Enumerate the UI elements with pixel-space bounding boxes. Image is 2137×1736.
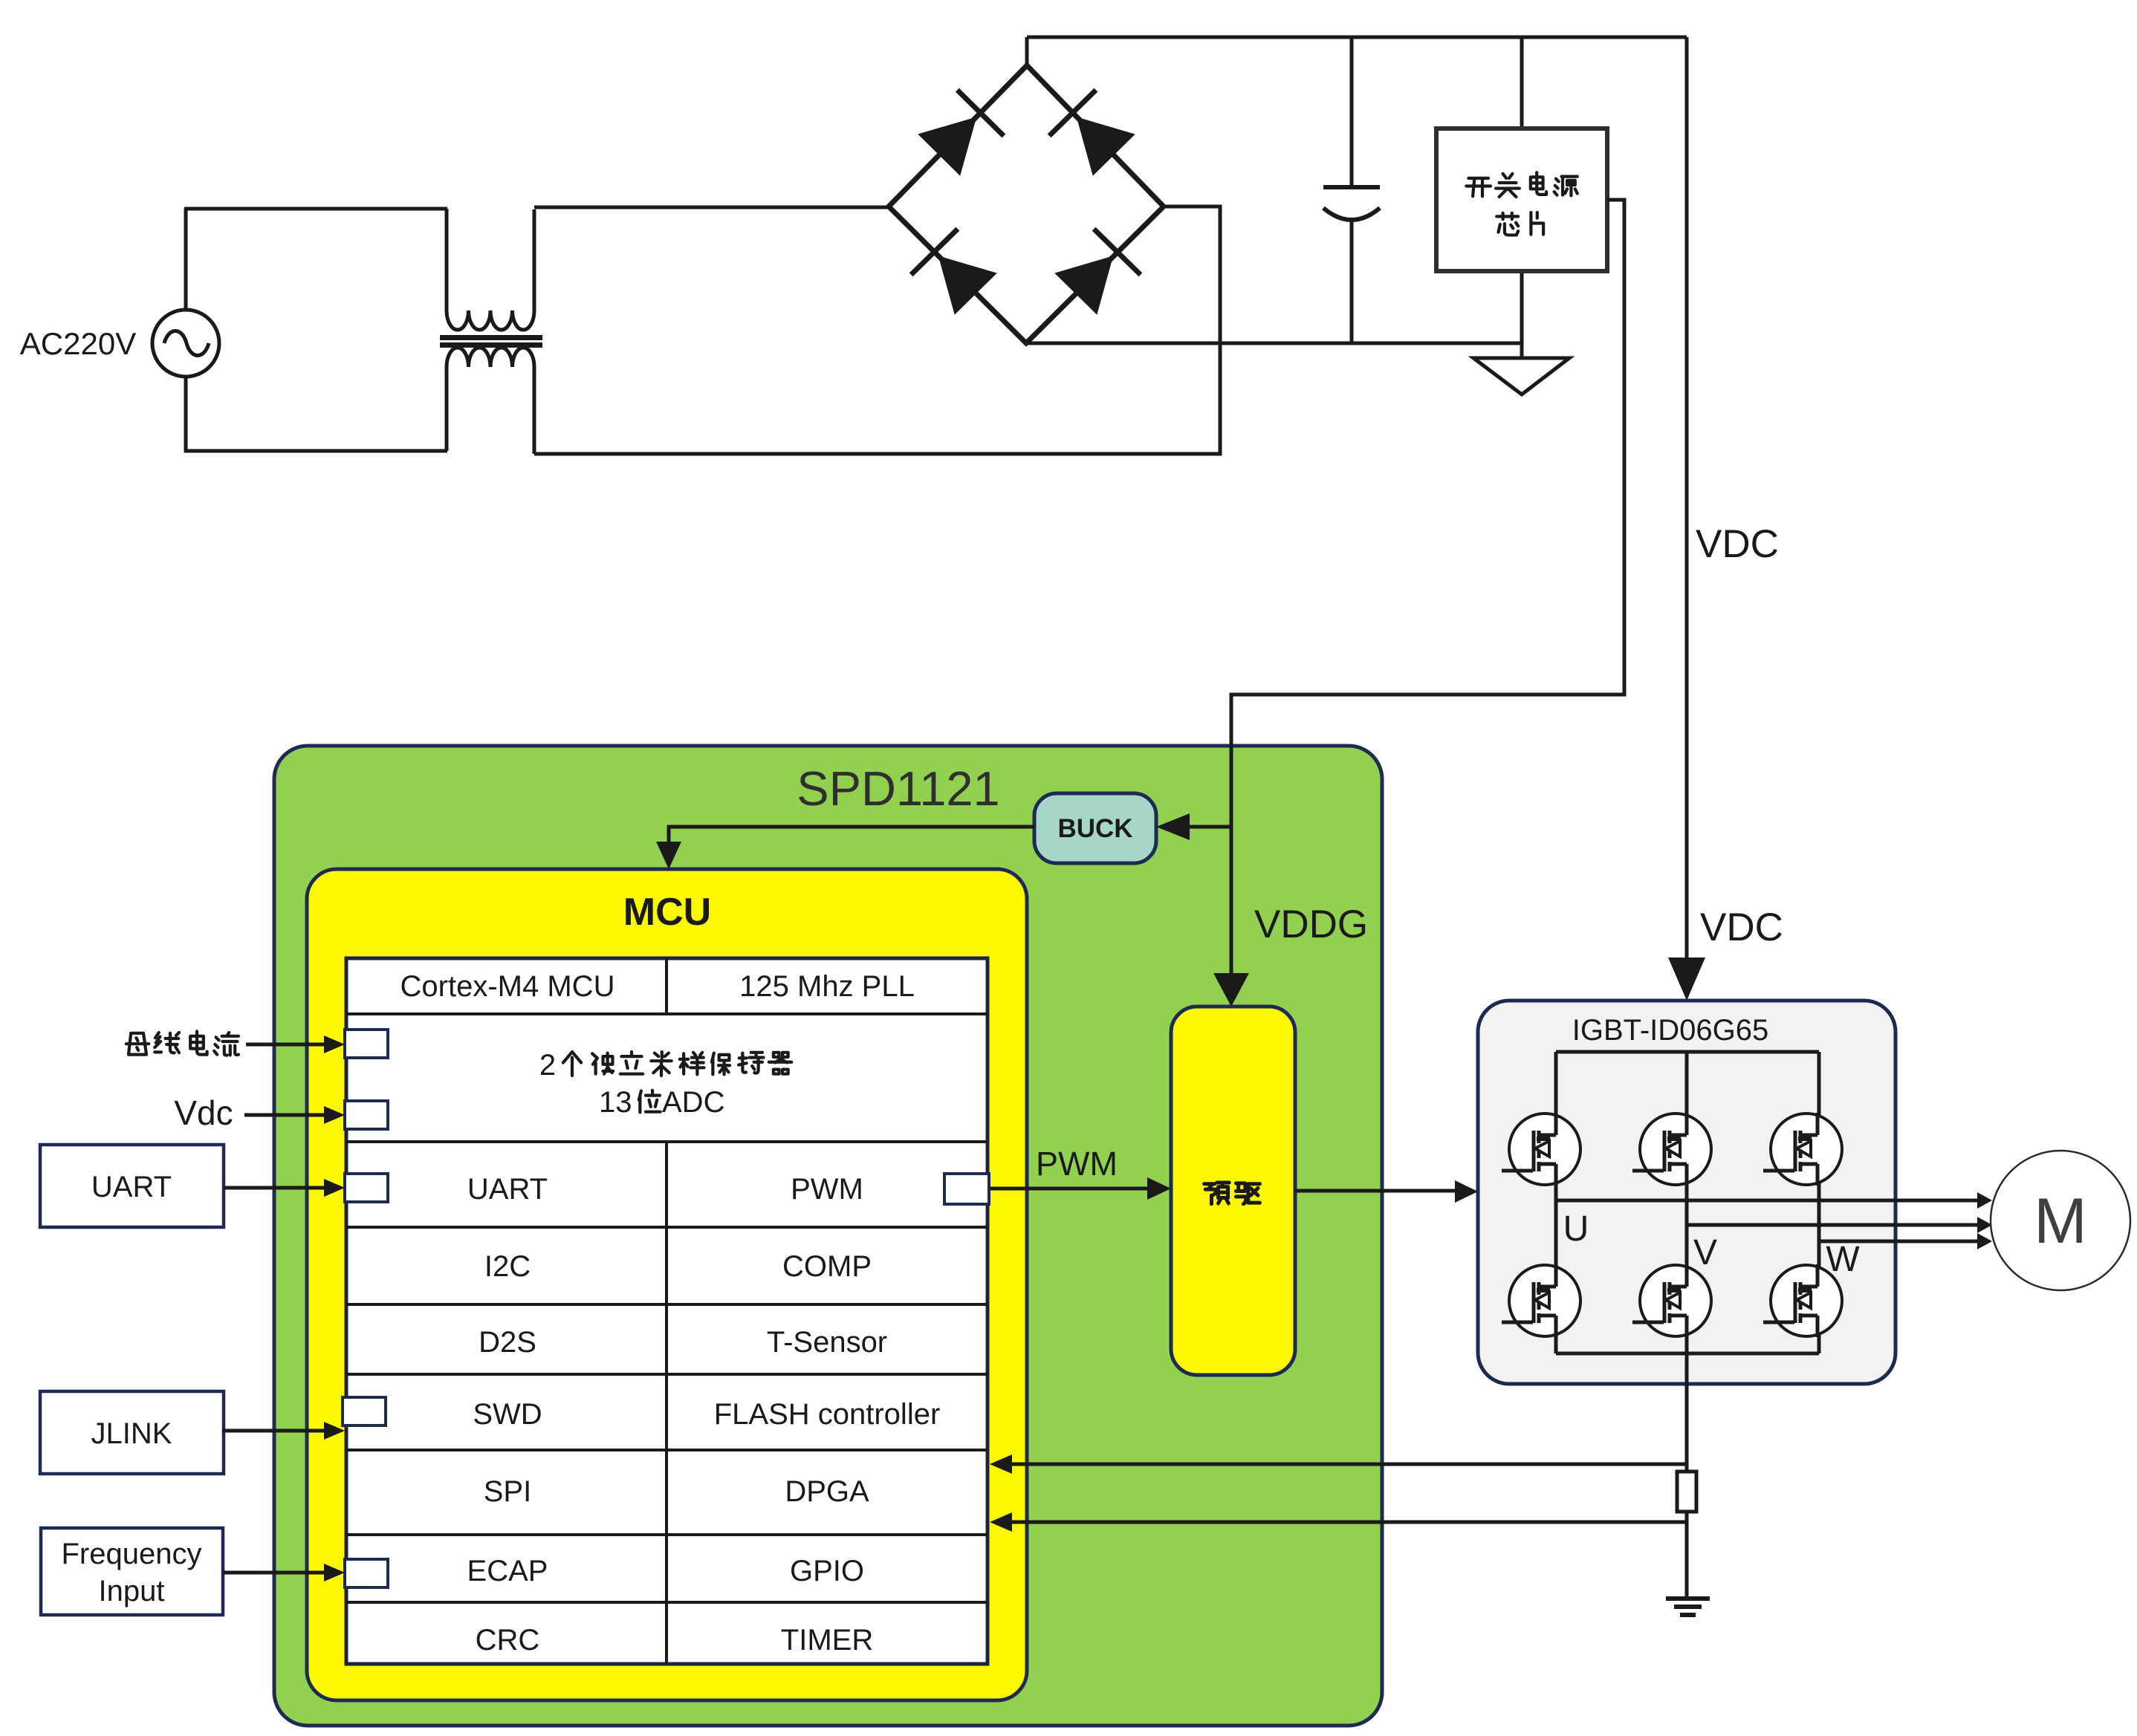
svg-text:BUCK: BUCK [1057,814,1132,843]
svg-text:V: V [1693,1233,1717,1272]
svg-text:JLINK: JLINK [91,1417,172,1450]
svg-text:ADC: ADC [662,1086,724,1119]
svg-text:PWM: PWM [791,1173,863,1206]
svg-text:125 Mhz PLL: 125 Mhz PLL [739,970,915,1003]
svg-text:Frequency: Frequency [62,1538,202,1570]
svg-text:GPIO: GPIO [790,1555,864,1587]
svg-text:UART: UART [467,1173,548,1206]
svg-text:I2C: I2C [484,1250,531,1283]
svg-text:D2S: D2S [479,1326,536,1359]
svg-text:UART: UART [91,1171,172,1203]
svg-text:M: M [2034,1186,2087,1257]
svg-text:T-Sensor: T-Sensor [767,1326,887,1359]
svg-text:W: W [1826,1240,1860,1279]
svg-text:MCU: MCU [623,891,711,934]
svg-text:SPI: SPI [484,1475,531,1508]
svg-text:TIMER: TIMER [781,1624,873,1657]
svg-text:Input: Input [99,1575,165,1607]
svg-text:Vdc: Vdc [174,1093,233,1132]
svg-text:IGBT-ID06G65: IGBT-ID06G65 [1572,1014,1769,1047]
svg-text:PWM: PWM [1036,1145,1118,1183]
svg-text:U: U [1563,1209,1589,1249]
svg-text:VDDG: VDDG [1254,903,1368,946]
svg-text:AC220V: AC220V [20,326,136,361]
svg-text:DPGA: DPGA [785,1475,869,1508]
svg-text:FLASH controller: FLASH controller [714,1398,941,1431]
svg-text:VDC: VDC [1700,906,1783,949]
svg-text:SWD: SWD [473,1398,542,1431]
svg-text:SPD1121: SPD1121 [797,761,999,816]
svg-text:ECAP: ECAP [467,1555,548,1587]
svg-text:VDC: VDC [1696,522,1779,566]
svg-text:CRC: CRC [476,1624,540,1657]
svg-text:Cortex-M4 MCU: Cortex-M4 MCU [401,970,615,1003]
svg-text:13: 13 [599,1086,632,1119]
svg-text:2: 2 [539,1049,556,1082]
svg-text:COMP: COMP [782,1250,872,1283]
